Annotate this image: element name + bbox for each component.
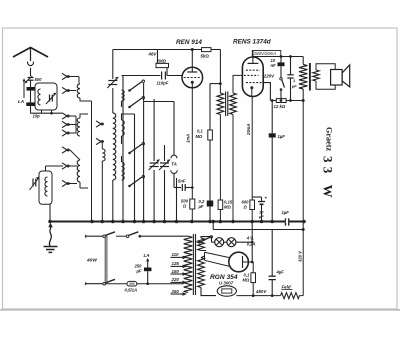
wire — [144, 102, 174, 156]
capacitor 1µF — [287, 57, 297, 101]
svg-text:450V: 450V — [255, 289, 267, 294]
wire — [70, 77, 79, 85]
wire — [70, 116, 76, 133]
switch contact — [62, 73, 70, 79]
wire — [46, 166, 64, 171]
svg-text:0,5/1A: 0,5/1A — [125, 288, 138, 293]
wire — [122, 76, 124, 222]
junction — [142, 220, 146, 224]
switch contact — [62, 113, 70, 119]
chassis bus wire — [50, 221, 304, 223]
resistor 5k&#937; — [201, 48, 212, 59]
wire (screen grid) — [263, 83, 270, 101]
pilot lamp — [212, 238, 224, 247]
band switch lever — [128, 176, 144, 188]
svg-text:LA: LA — [18, 99, 24, 104]
junction — [163, 220, 167, 224]
svg-text:46V: 46V — [148, 51, 158, 56]
capacitor (antenna series) — [27, 87, 35, 91]
svg-text:5kΩ: 5kΩ — [201, 54, 210, 59]
svg-text:12 kΩ: 12 kΩ — [274, 104, 286, 109]
grid wire — [122, 75, 183, 77]
wire — [219, 115, 221, 201]
wire (grid RENS) — [233, 75, 242, 93]
series capacitor 1µF in bus — [282, 210, 290, 226]
switch contact — [62, 130, 70, 136]
svg-text:1µF: 1µF — [278, 134, 286, 139]
junction — [152, 220, 156, 224]
svg-text:150: 150 — [172, 269, 180, 274]
wire — [49, 204, 51, 221]
antenna coupling capacitor 250µF — [134, 258, 152, 285]
capacitor 10nF — [271, 57, 285, 69]
mains switch pole 2 — [116, 232, 188, 238]
coil — [122, 90, 125, 107]
svg-text:Feld: Feld — [282, 285, 291, 290]
capacitor 5nF — [178, 179, 186, 192]
junction — [191, 48, 194, 51]
trimmer capacitor — [46, 93, 56, 104]
wire — [174, 187, 181, 189]
switch — [280, 66, 285, 100]
svg-text:REN 914: REN 914 — [176, 39, 202, 46]
svg-text:0,1: 0,1 — [197, 129, 203, 134]
mains lead — [85, 235, 103, 238]
tube RENS 1374d — [242, 51, 263, 97]
svg-text:220: 220 — [171, 277, 180, 282]
wire — [153, 99, 155, 161]
coil — [122, 114, 135, 144]
fuse 0,5/1A — [106, 281, 184, 292]
junction — [111, 220, 115, 224]
pickup jack — [171, 170, 178, 187]
wire — [153, 170, 155, 222]
svg-text:4µF: 4µF — [276, 270, 285, 275]
resistor 2M&#937; — [156, 50, 169, 76]
junction — [133, 220, 137, 224]
label 4V 0,2A — [246, 236, 256, 247]
resistor 0,1 M&#937; — [196, 129, 213, 141]
switch contact — [96, 121, 104, 127]
svg-text:320 V: 320 V — [298, 250, 303, 262]
svg-text:125: 125 — [172, 261, 180, 266]
trimmer capacitor — [159, 160, 170, 171]
junction — [90, 220, 94, 224]
anode rail wire — [253, 55, 303, 58]
tap 125 — [171, 261, 187, 268]
mains switch — [103, 232, 115, 285]
label 25mA — [246, 124, 251, 136]
coil — [77, 160, 80, 182]
tap 220 — [171, 277, 187, 284]
tap 110 — [171, 252, 187, 259]
wire — [210, 82, 222, 130]
ground — [44, 223, 58, 253]
46V rail wire — [113, 50, 221, 57]
svg-text:Ω: Ω — [182, 204, 187, 209]
wire — [302, 89, 304, 101]
svg-text:10p: 10p — [33, 113, 41, 118]
junction — [48, 220, 52, 224]
HT winding — [198, 258, 216, 296]
svg-text:33 W: 33 W — [321, 156, 336, 202]
junction — [208, 220, 212, 224]
trimmer capacitor — [149, 160, 160, 171]
wire — [213, 222, 303, 230]
svg-text:4 V,: 4 V, — [246, 236, 254, 241]
label LA — [18, 99, 24, 104]
wire — [176, 178, 178, 222]
svg-text:+: + — [265, 196, 268, 201]
svg-text:µF: µF — [136, 269, 142, 274]
label LA — [144, 253, 150, 258]
svg-text:40W: 40W — [86, 258, 97, 264]
svg-text:MΩ: MΩ — [196, 134, 203, 139]
mains lead — [85, 282, 103, 285]
wire — [302, 57, 304, 65]
junction — [190, 220, 194, 224]
capacitor 110pF — [157, 72, 169, 86]
switch contact — [62, 180, 70, 186]
tube RGN 354 — [201, 252, 248, 272]
wire — [143, 83, 145, 222]
resistor 0,15 M&#937; — [218, 200, 233, 210]
wire — [80, 114, 88, 118]
IF transformer primary — [217, 93, 224, 115]
junction — [175, 220, 179, 224]
svg-text:LA: LA — [144, 253, 150, 258]
wire — [248, 261, 253, 273]
label RENS 1374d — [233, 39, 272, 46]
band switch lever — [128, 97, 144, 109]
capacitor 0,2 µF — [198, 199, 214, 209]
wire — [70, 91, 92, 222]
heater winding — [198, 237, 212, 251]
label RGN 354 — [210, 274, 238, 281]
junction — [121, 220, 125, 224]
wire — [112, 180, 114, 222]
trimmer capacitor — [30, 177, 40, 190]
trimmer capacitor 500 — [25, 76, 43, 83]
wire — [31, 106, 63, 114]
wire — [209, 207, 211, 222]
padding trimmer — [107, 77, 118, 88]
wire — [164, 170, 166, 222]
arrow (antenna coupling) — [23, 78, 26, 98]
label 280V/20mA — [252, 51, 280, 57]
coil — [77, 84, 80, 98]
wire — [164, 145, 166, 161]
svg-text:280V/20mA: 280V/20mA — [253, 51, 277, 56]
wire — [191, 209, 193, 222]
svg-text:1mA: 1mA — [186, 134, 191, 143]
antenna — [13, 48, 48, 77]
resistor 0,1 M&#937; — [243, 273, 256, 283]
junction — [231, 220, 235, 224]
wire — [134, 114, 136, 222]
electrolytic 10µF — [252, 196, 267, 222]
svg-text:MΩ: MΩ — [243, 278, 250, 283]
output transformer core — [309, 63, 311, 91]
tap 150 — [171, 269, 187, 276]
wire — [80, 182, 88, 188]
svg-text:500: 500 — [35, 77, 43, 82]
capacitor 4µF — [269, 230, 285, 296]
power transformer core — [193, 234, 195, 295]
oscillator coil — [113, 113, 116, 180]
wire — [302, 101, 304, 296]
label 320 V — [298, 250, 303, 262]
IF transformer core — [226, 92, 228, 117]
svg-text:220V: 220V — [263, 74, 275, 79]
wire — [30, 81, 32, 88]
resistor 500 &#937; — [181, 199, 195, 210]
svg-text:RENS 1374d: RENS 1374d — [233, 39, 272, 46]
svg-text:25mA: 25mA — [246, 124, 251, 136]
wire — [236, 222, 254, 263]
coil L2 — [39, 171, 52, 204]
loudspeaker — [331, 65, 350, 87]
band switch lever — [128, 143, 144, 155]
junction — [302, 220, 306, 224]
output transformer primary — [299, 65, 307, 90]
svg-text:µF: µF — [198, 204, 204, 209]
antenna coil L1 — [35, 83, 57, 113]
capacitor 1µF — [269, 133, 286, 139]
IF transformer secondary — [230, 93, 237, 115]
tap 260 — [171, 289, 187, 296]
output transformer secondary — [313, 64, 335, 89]
wire — [209, 140, 211, 201]
junction — [270, 220, 274, 224]
wire — [112, 88, 114, 113]
spare tube U 3007 — [217, 280, 236, 296]
wire (cathode) — [251, 97, 253, 201]
switch — [197, 236, 213, 244]
tube REN 914 — [182, 50, 203, 200]
svg-text:U 3007: U 3007 — [219, 280, 234, 285]
wire — [251, 210, 253, 222]
switch contact — [62, 121, 70, 127]
wire — [30, 91, 32, 103]
capacitor 10p — [26, 102, 40, 118]
svg-text:Graetz: Graetz — [325, 127, 334, 151]
wire — [112, 50, 114, 80]
svg-text:110pF: 110pF — [157, 81, 169, 86]
wire — [232, 115, 234, 222]
pilot lamp — [224, 238, 236, 247]
wire — [271, 99, 274, 133]
switch contact — [62, 147, 70, 153]
junction — [211, 220, 215, 224]
junction — [101, 220, 105, 224]
label 1mA — [186, 134, 191, 143]
wire — [269, 101, 271, 108]
svg-text:260: 260 — [171, 289, 180, 294]
junction — [302, 228, 305, 231]
wire — [271, 138, 273, 222]
power transformer primary — [184, 236, 193, 292]
svg-text:TA: TA — [171, 162, 177, 167]
svg-text:Ω: Ω — [243, 205, 248, 210]
field coil resistor Feld — [281, 285, 304, 299]
wire — [211, 50, 220, 94]
wire — [219, 210, 221, 222]
band switch lever — [128, 80, 144, 92]
coupling coil — [102, 143, 105, 222]
pickup jack TA — [171, 155, 177, 167]
coil — [77, 118, 80, 136]
svg-text:1µF: 1µF — [282, 210, 290, 215]
resistor 600 &#937; — [242, 200, 255, 210]
switch contact — [62, 87, 70, 93]
wire — [252, 283, 254, 296]
svg-text:µF: µF — [291, 84, 297, 89]
coil — [122, 156, 125, 180]
svg-text:MΩ: MΩ — [224, 205, 231, 210]
wire — [185, 186, 193, 189]
switch contact — [96, 138, 104, 144]
junction — [250, 220, 254, 224]
wire — [70, 150, 80, 184]
label 40W — [86, 258, 97, 264]
junction — [219, 220, 223, 224]
label REN 914 — [176, 39, 202, 46]
resistor 12 k&#937; — [270, 99, 304, 109]
svg-text:5nF: 5nF — [178, 179, 186, 184]
svg-text:nF: nF — [271, 63, 277, 68]
junction — [260, 220, 264, 224]
450V line — [236, 289, 280, 297]
svg-text:110: 110 — [172, 252, 180, 257]
title Graetz 33 W — [321, 127, 336, 202]
switch contact — [62, 163, 70, 169]
label 220V — [263, 74, 275, 79]
